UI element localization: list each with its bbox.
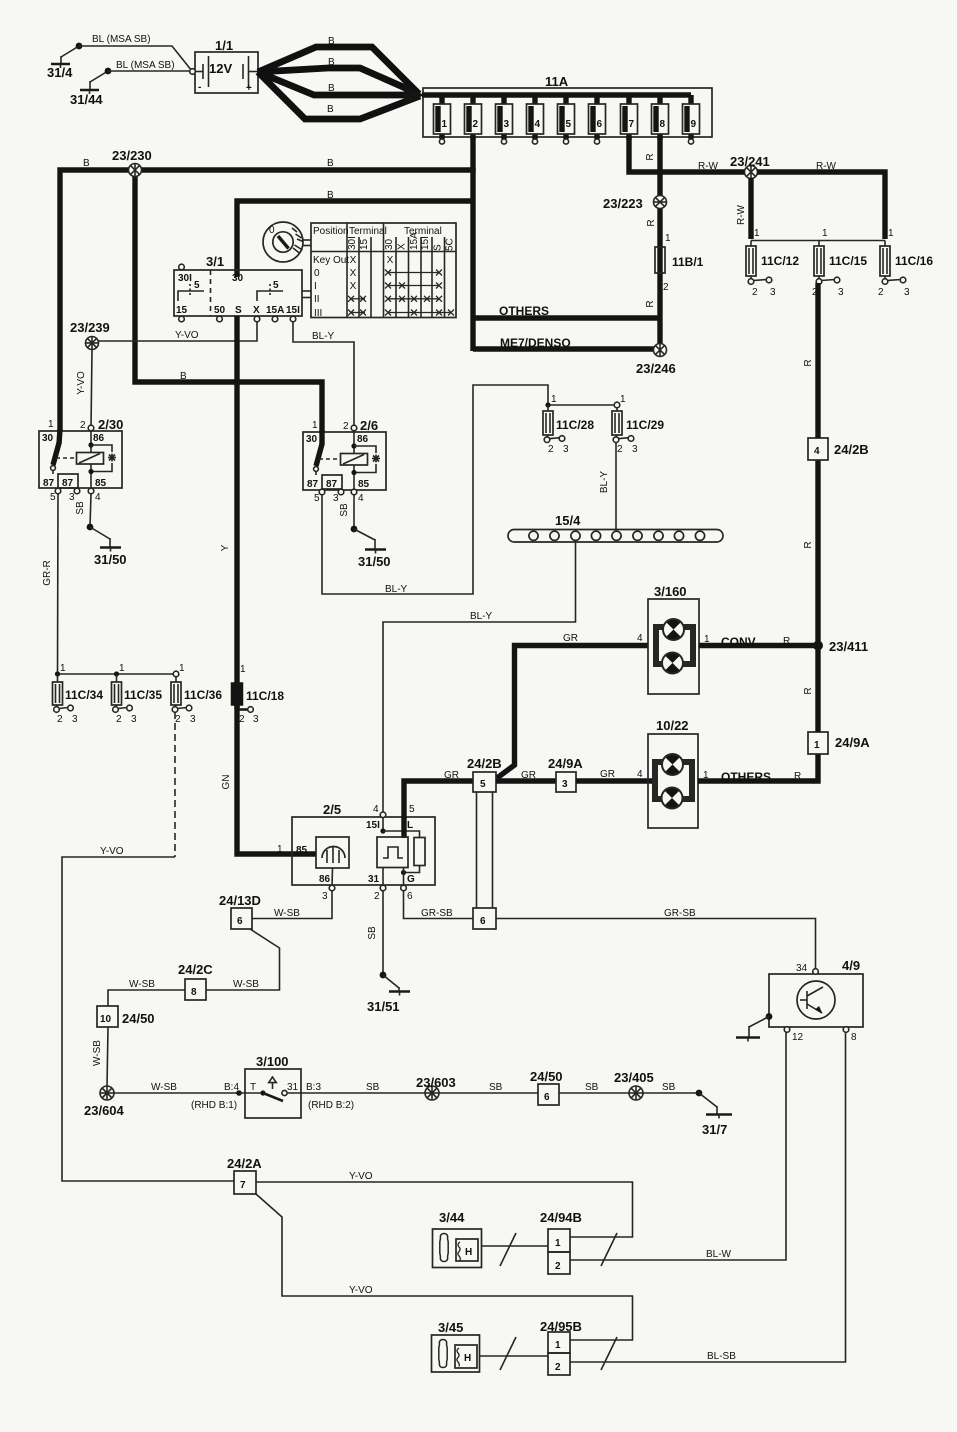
svg-text:3/1: 3/1 [206,254,224,269]
svg-text:24/2C: 24/2C [178,962,213,977]
svg-text:SB: SB [367,926,378,940]
svg-text:15: 15 [176,305,188,316]
svg-text:11B/1: 11B/1 [672,255,704,269]
fuse 7 [621,95,638,140]
svg-text:1: 1 [312,420,318,431]
svg-text:R: R [803,359,814,366]
svg-text:4: 4 [358,493,364,504]
ground 31/4 [47,43,82,80]
svg-text:87: 87 [307,479,319,490]
svg-text:50: 50 [214,305,226,316]
svg-text:Key Out: Key Out [313,255,349,266]
wire 3/45 to 24/95B [479,1337,548,1370]
wire GR 24/9A3 to lamp 10/22 [576,769,655,781]
wire GR-R relay 2/30 pin5 down to 11C/34 [42,494,58,674]
svg-text:1: 1 [822,228,828,239]
svg-text:12: 12 [792,1032,804,1043]
connector 24/95B pins 1 2 [540,1319,582,1375]
wire R-W fuse7 to 23/241 [629,137,748,172]
position/terminal table [311,223,456,319]
svg-text:0: 0 [314,268,320,279]
svg-text:5: 5 [314,493,320,504]
node 23/241 [730,154,770,179]
svg-text:2/30: 2/30 [98,417,123,432]
svg-text:23/604: 23/604 [84,1103,125,1118]
svg-text:GR: GR [600,769,615,780]
svg-text:11C/34: 11C/34 [65,688,103,702]
svg-text:87: 87 [326,479,338,490]
svg-text:30: 30 [42,433,54,444]
svg-text:9: 9 [691,119,697,130]
svg-text:2: 2 [116,714,122,725]
svg-text:23/603: 23/603 [416,1075,456,1090]
svg-text:(RHD B:1): (RHD B:1) [191,1100,237,1111]
node 23/230 [112,148,152,177]
wire BL-Y relay 2/6 pin5 to ignition riser [322,385,548,595]
svg-text:1: 1 [555,1238,561,1249]
svg-text:15/4: 15/4 [555,513,581,528]
wire BL-Y 11C/29 pin2 down to 15/4 [599,443,616,532]
svg-text:4: 4 [637,769,643,780]
wire B battery fan strand 4 [258,72,420,119]
svg-text:24/2B: 24/2B [834,442,869,457]
svg-text:I: I [314,281,317,292]
svg-text:3: 3 [904,287,910,298]
svg-text:S: S [235,305,242,316]
wire GR-SB 2/5 pin6 to 24/2B6 [404,891,474,919]
svg-text:L: L [407,820,413,831]
svg-text:3: 3 [131,714,137,725]
svg-text:2: 2 [878,287,884,298]
svg-text:6: 6 [597,119,603,130]
svg-text:BL-Y: BL-Y [312,331,335,342]
svg-text:II: II [314,294,320,305]
svg-text:3: 3 [563,444,569,455]
svg-text:Y-VO: Y-VO [349,1171,373,1182]
svg-text:B: B [180,371,187,382]
svg-text:W-SB: W-SB [233,979,259,990]
wire R fuse8 down [645,137,660,346]
svg-text:1: 1 [754,228,760,239]
wire pin1 link 11C/34 11C/35 11C/36 [58,673,177,675]
svg-text:5: 5 [480,779,486,790]
svg-text:7: 7 [629,119,635,130]
node 23/603 [416,1075,456,1100]
bulb 11C/15 [812,228,867,298]
svg-text:1: 1 [555,1340,561,1351]
svg-text:15: 15 [359,238,370,250]
fuse 1 [434,95,451,144]
ground 31/7 [696,1090,732,1137]
svg-text:2: 2 [239,714,245,725]
node 23/405 [614,1070,654,1100]
svg-text:30: 30 [306,434,318,445]
wire R CONV to 23/411 [699,634,817,649]
svg-text:1: 1 [442,119,448,130]
bulb 11C/28 [543,394,594,455]
heater timer unit 2/5 [277,790,435,902]
wire pin1 link 11C/12 11C/15 11C/16 [751,240,885,242]
wire B fuse2 riser down to ignition feed [237,168,473,351]
svg-text:R-W: R-W [736,204,747,225]
svg-text:6: 6 [480,916,486,927]
connector 24/13D pin 6 [219,893,261,929]
svg-text:B: B [327,158,334,169]
connector 24/2B pin 6 [473,908,496,929]
wire OTHERS [473,304,660,318]
svg-text:2: 2 [555,1261,561,1272]
svg-text:2: 2 [752,287,758,298]
wire GR 24/2B5 to 24/9A3 [496,770,556,781]
node 23/411 [813,639,868,654]
svg-text:BL (MSA SB): BL (MSA SB) [92,34,151,45]
svg-text:R: R [803,687,814,694]
svg-text:3/44: 3/44 [439,1210,465,1225]
svg-text:1/1: 1/1 [215,38,233,53]
svg-text:24/2A: 24/2A [227,1156,262,1171]
svg-text:2/6: 2/6 [360,418,378,433]
svg-text:11C/36: 11C/36 [184,688,222,702]
wire SB relay 2/30 pin4 to ground [75,494,91,527]
ground 31/50 left [87,524,127,567]
svg-text:31: 31 [287,1082,299,1093]
svg-text:Y-VO: Y-VO [175,330,199,341]
svg-text:4: 4 [814,446,820,457]
svg-text:B: B [83,158,90,169]
wire R 24/2B4 up to 11C/15 [803,283,818,438]
svg-text:R: R [645,300,656,307]
wire SB 23/603 to 24/50 pin 6 [439,1082,538,1093]
svg-text:31/7: 31/7 [702,1122,727,1137]
svg-text:6: 6 [237,916,243,927]
svg-text:3: 3 [253,714,259,725]
wire R 23/411 up to 24/2B4 [803,460,818,645]
svg-text:SB: SB [585,1082,599,1093]
svg-text:X: X [387,255,394,266]
svg-text:86: 86 [93,433,105,444]
svg-text:SB: SB [75,501,86,515]
svg-text:Position: Position [313,226,349,237]
svg-text:1: 1 [620,394,626,405]
wire BL-Y ignition 15I to relay 2/6 pin 86 [293,322,354,428]
svg-text:BL-Y: BL-Y [385,584,408,595]
svg-text:3: 3 [838,287,844,298]
svg-text:24/13D: 24/13D [219,893,261,908]
svg-text:2: 2 [617,444,623,455]
wire SB 23/405 to ground 31/7 [643,1082,699,1093]
svg-text:6: 6 [544,1092,550,1103]
svg-text:BL-Y: BL-Y [599,471,610,494]
fuse 2 [465,95,482,140]
svg-text:2: 2 [343,421,349,432]
node 23/604 [84,1086,125,1118]
ground 31/44 [70,68,111,107]
svg-text:3: 3 [72,714,78,725]
wire Y-VO 23/239 down to relay 2/30 pin 86 [76,350,92,429]
svg-text:OTHERS: OTHERS [721,770,771,784]
svg-text:8: 8 [660,119,666,130]
svg-text:CONV: CONV [721,635,756,649]
svg-text:5: 5 [273,280,279,291]
bulb 11C/16 [878,228,933,298]
wire B battery fan strand 3 [258,72,420,95]
wire B 23/230 down to relay 2/6 [135,170,322,432]
svg-text:31/50: 31/50 [358,554,391,569]
svg-text:86: 86 [357,434,369,445]
svg-text:1: 1 [240,664,246,675]
svg-text:R: R [803,541,814,548]
svg-text:5: 5 [566,119,572,130]
svg-text:11C/18: 11C/18 [246,689,284,703]
svg-text:GN: GN [221,775,232,790]
svg-text:R: R [794,771,801,782]
svg-text:31/50: 31/50 [94,552,127,567]
svg-text:23/230: 23/230 [112,148,152,163]
svg-text:10/22: 10/22 [656,718,689,733]
connector 24/2B pin 4 [808,438,869,460]
svg-text:30: 30 [232,273,244,284]
svg-text:GR: GR [521,770,536,781]
svg-text:B:3: B:3 [306,1082,321,1093]
heater element 3/44 [433,1210,482,1268]
svg-text:15A: 15A [409,232,420,250]
bulb 11C/29 [612,394,664,455]
svg-text:30I: 30I [178,273,192,284]
key symbol [263,222,311,262]
svg-text:3: 3 [322,891,328,902]
bulb 11C/34 [53,663,104,725]
svg-text:5: 5 [409,804,415,815]
svg-text:0: 0 [269,225,275,236]
svg-text:15I: 15I [286,305,300,316]
wire GR branch up to CONV lamp [497,633,648,778]
wire BL-SB 24/95B2 to 4/9 pin8 [570,1033,846,1371]
svg-text:SB: SB [489,1082,503,1093]
svg-text:2: 2 [175,714,181,725]
connector 24/2C pin 8 [178,962,213,1000]
wire B battery fan strand 1 [258,36,419,94]
svg-text:GR: GR [563,633,578,644]
bulb 11C/36 [171,663,222,725]
svg-text:X: X [397,243,408,250]
svg-text:S: S [433,244,444,251]
svg-text:3: 3 [562,779,568,790]
battery 1/1 12V [190,38,258,94]
connector 24/9A pin 3 [548,756,583,792]
svg-text:23/405: 23/405 [614,1070,654,1085]
bulb 11C/35 [112,663,163,725]
svg-text:24/50: 24/50 [122,1011,155,1026]
svg-text:SB: SB [339,503,350,517]
svg-text:2: 2 [57,714,63,725]
fuse 9 [683,95,700,144]
svg-text:SB: SB [366,1082,380,1093]
svg-text:H: H [465,1247,472,1258]
svg-text:23/246: 23/246 [636,361,676,376]
svg-text:87: 87 [62,478,74,489]
svg-text:X: X [350,255,357,266]
svg-text:85: 85 [296,845,308,856]
svg-text:31: 31 [368,874,380,885]
svg-text:87: 87 [43,478,55,489]
fuse 11B/1 [655,233,704,293]
svg-text:1: 1 [60,663,66,674]
svg-text:1: 1 [814,740,820,751]
svg-text:3: 3 [190,714,196,725]
svg-text:T: T [250,1082,256,1093]
ground 31/51 [367,972,410,1014]
svg-text:2/5: 2/5 [323,802,341,817]
svg-text:2: 2 [548,444,554,455]
wire pin1 link 11C/28 11C/29 [548,404,617,406]
wire R-W 23/241 to 11C/16 [757,161,885,239]
ground 31/50 right [351,526,391,569]
svg-text:15A: 15A [266,305,284,316]
wire W-SB 24/13D to 24/2C [206,929,280,990]
svg-text:X: X [350,268,357,279]
svg-text:W-SB: W-SB [274,908,300,919]
svg-text:86: 86 [319,874,331,885]
svg-text:-: - [198,82,201,93]
wire SB relay 2/6 pin4 to ground [339,495,354,529]
svg-text:GR: GR [444,770,459,781]
svg-text:Terminal: Terminal [349,226,387,237]
svg-text:III: III [314,308,322,319]
fuse 3 [496,95,513,144]
arrow into fuse box [404,85,424,105]
svg-text:BL (MSA SB): BL (MSA SB) [116,60,175,71]
svg-text:1: 1 [48,419,54,430]
svg-text:23/241: 23/241 [730,154,770,169]
svg-text:BL-Y: BL-Y [470,611,493,622]
bulb 11C/12 [746,228,799,298]
wire Y-VO ignition X to 23/239 [93,322,257,341]
svg-text:X: X [253,305,260,316]
node 23/239 [70,320,110,350]
svg-text:5C: 5C [445,238,456,251]
fuse 4 [527,95,544,144]
svg-text:24/9A: 24/9A [835,735,870,750]
bulb 11C/18 [232,664,285,725]
svg-text:Y: Y [220,544,231,551]
svg-text:23/223: 23/223 [603,196,643,211]
wire W-SB 24/50 down to 23/604 [92,1027,108,1087]
svg-text:4: 4 [95,492,101,503]
svg-text:3/100: 3/100 [256,1054,289,1069]
svg-text:10: 10 [100,1014,112,1025]
connector 24/2B pin 5 [467,756,502,908]
svg-text:15I: 15I [366,820,380,831]
svg-text:3: 3 [770,287,776,298]
svg-text:1: 1 [888,228,894,239]
svg-text:1: 1 [703,770,709,781]
connector strip 15/4 [508,513,723,542]
wire R 24/9A1 up to 23/411 [803,645,818,732]
svg-text:R: R [783,636,790,647]
svg-text:R-W: R-W [698,161,719,172]
svg-text:15I: 15I [420,236,431,250]
connector 24/50 pin 10 [97,1006,155,1027]
wire BL-Y 15/4 down to 2/5 pin 4 [383,541,576,813]
svg-text:Y-VO: Y-VO [100,846,124,857]
wire BL (MSA SB) upper [79,34,192,71]
heater element 3/45 [432,1320,480,1372]
svg-text:3/160: 3/160 [654,584,687,599]
svg-text:B: B [328,36,335,47]
svg-text:5: 5 [50,492,56,503]
svg-text:+: + [246,83,252,94]
svg-text:4/9: 4/9 [842,958,860,973]
svg-text:6: 6 [407,891,413,902]
wire Y-VO 11C/36 down and to 24/2A [62,712,234,1181]
svg-text:2: 2 [374,891,380,902]
svg-text:1: 1 [551,394,557,405]
svg-text:ME7/DENSO: ME7/DENSO [500,336,571,350]
svg-text:4: 4 [535,119,541,130]
lamp unit 3/160 [648,584,699,694]
svg-text:24/50: 24/50 [530,1069,563,1084]
svg-text:W-SB: W-SB [151,1082,177,1093]
wire 3/44 to 24/94B [481,1233,548,1266]
fuse 5 [558,95,575,144]
fuse 8 [652,95,669,140]
svg-text:2: 2 [473,119,479,130]
svg-text:7: 7 [240,1180,246,1191]
wire SB 24/50 to 23/405 [559,1082,629,1093]
svg-text:GR-SB: GR-SB [421,908,453,919]
svg-text:24/9A: 24/9A [548,756,583,771]
ignition switch 3/1 [174,254,311,322]
svg-text:(RHD B:2): (RHD B:2) [308,1100,354,1111]
svg-text:11C/15: 11C/15 [829,254,867,268]
svg-text:11A: 11A [545,74,569,89]
connector 24/9A pin 1 [808,732,870,754]
node 23/246 [636,344,676,377]
svg-text:8: 8 [851,1032,857,1043]
svg-text:12V: 12V [209,61,232,76]
wire Y-VO 24/2A to 24/94B [256,1171,633,1237]
svg-text:31/44: 31/44 [70,92,103,107]
wire R OTHERS to 24/9A1 [698,754,818,784]
wire Y-VO 24/2A branch to 24/95B [256,1194,633,1340]
svg-text:30: 30 [384,238,395,250]
relay 2/6 [303,418,386,504]
svg-text:B: B [328,57,335,68]
svg-text:2: 2 [80,420,86,431]
connector 24/2A pin 7 [227,1156,262,1194]
lamp unit 10/22 [648,718,698,828]
wire Y ignition S down [220,316,237,683]
wire GR-SB 24/2B6 to 4/9 pin34 [496,908,816,969]
svg-text:3: 3 [333,493,339,504]
svg-text:Y-VO: Y-VO [349,1285,373,1296]
svg-text:1: 1 [277,844,283,855]
svg-text:W-SB: W-SB [92,1040,103,1066]
svg-text:1: 1 [119,663,125,674]
svg-text:GR-R: GR-R [42,560,53,586]
wire BL (MSA SB) lower [108,60,190,71]
svg-text:3/45: 3/45 [438,1320,463,1335]
svg-text:H: H [464,1353,471,1364]
svg-text:23/411: 23/411 [829,639,868,654]
svg-text:4: 4 [373,804,379,815]
svg-text:24/94B: 24/94B [540,1210,582,1225]
svg-text:11C/12: 11C/12 [761,254,799,268]
fuse 6 [589,95,606,144]
wire W-SB 2/5 pin3 to 24/13D [252,891,332,919]
svg-text:B: B [327,104,334,115]
svg-text:GR-SB: GR-SB [664,908,696,919]
